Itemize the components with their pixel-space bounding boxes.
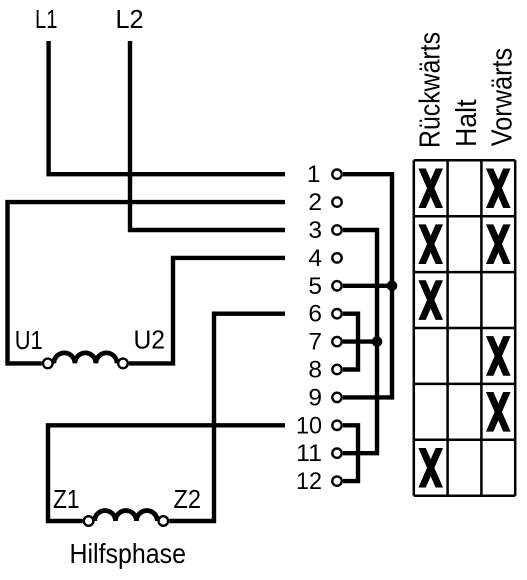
svg-text:1: 1 [307,161,321,188]
svg-text:5: 5 [308,273,322,300]
node A junction dot at terminal 5 [387,281,398,292]
node B junction dot at terminal 7 [372,336,383,347]
wire terminal 5 to node A [343,284,392,288]
wire terminal 2 to U1 [8,202,286,363]
terminal circle U1 [43,359,53,369]
wire bridge terminal 6 to terminal 8 [343,314,358,370]
X mark row 5 Vorwärts [486,392,511,432]
svg-text:11: 11 [296,440,322,467]
terminal circle Z1 [84,516,94,526]
wire terminal 6 to Z2 [169,314,285,521]
svg-text:9: 9 [308,384,322,411]
X mark row 2 Rückwärts [418,224,443,264]
svg-text:U2: U2 [134,325,166,355]
wire L1 to terminal 1 [49,41,285,174]
terminal circle 2 [332,197,341,206]
svg-text:10: 10 [296,412,322,439]
terminal circle Z2 [159,516,169,526]
terminal circle 6 [332,309,341,318]
svg-text:12: 12 [296,468,322,495]
svg-text:3: 3 [308,217,322,244]
wire terminal 10 to Z1 [48,425,285,521]
svg-text:Rückwärts: Rückwärts [415,32,447,148]
wire U2 to terminal 4 [129,258,285,364]
svg-text:Vorwärts: Vorwärts [487,48,519,147]
svg-text:4: 4 [308,245,322,272]
X mark row 3 Rückwärts [418,280,443,320]
terminal circle 3 [332,225,341,234]
terminal circle 7 [332,337,341,346]
terminal circle 4 [332,253,341,262]
wire bridge terminal 1 to terminal 9 [343,174,392,397]
terminal circle 5 [332,281,341,290]
terminal circle 9 [332,393,341,402]
wire bridge terminal 3 to terminal 11 [343,230,377,453]
terminal circle 8 [332,365,341,374]
X mark row 6 Rückwärts [418,448,443,488]
svg-text:8: 8 [308,357,322,384]
inductor main winding U1-U2 [54,353,117,364]
svg-text:Z1: Z1 [53,484,80,514]
svg-text:2: 2 [308,189,322,216]
terminal circle 10 [332,421,341,430]
svg-text:7: 7 [308,329,322,356]
X mark row 4 Vorwärts [486,336,511,376]
svg-text:L1: L1 [35,4,58,34]
terminal circle 12 [332,476,341,485]
svg-text:U1: U1 [15,325,43,355]
svg-text:Halt: Halt [451,100,483,148]
svg-text:L2: L2 [116,4,144,34]
terminal circle 11 [332,449,341,458]
X mark row 1 Rückwärts [418,168,443,208]
wire terminal 7 to node B [343,339,377,343]
X mark row 1 Vorwärts [486,168,511,208]
wire L2 to terminal 3 [130,41,285,230]
svg-text:6: 6 [308,301,322,328]
terminal circle U2 [118,359,128,369]
inductor auxiliary winding Z1-Z2 [95,511,158,521]
svg-text:Z2: Z2 [174,484,202,514]
switch table grid [414,160,515,495]
svg-text:Hilfsphase: Hilfsphase [70,538,187,569]
X mark row 2 Vorwärts [486,224,511,264]
terminal circle 1 [332,170,341,179]
wire bridge terminal 10 to terminal 12 [343,425,358,481]
